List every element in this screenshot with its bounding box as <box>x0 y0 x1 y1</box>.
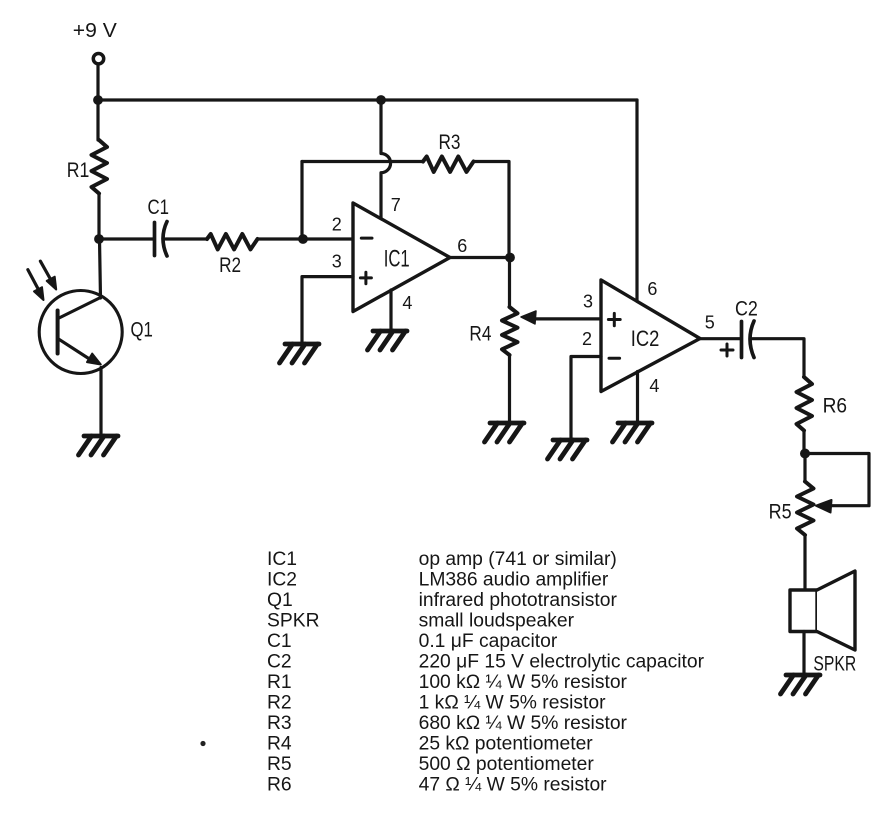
svg-text:4: 4 <box>649 376 659 396</box>
junction at rail pin7 branch <box>376 95 386 105</box>
svg-text:C2: C2 <box>735 298 758 321</box>
wire IC2 output pin5 <box>700 337 740 340</box>
+9V terminal <box>93 54 103 64</box>
wire node to C1 <box>99 237 153 240</box>
ground under Q1 <box>79 436 119 455</box>
wire R4 to ground <box>508 355 511 423</box>
resistor R3 <box>423 157 474 172</box>
op-amp IC2 <box>601 280 700 392</box>
svg-text:op amp (741 or similar): op amp (741 or similar) <box>419 549 617 570</box>
svg-text:R3: R3 <box>439 131 461 154</box>
wire R5 to speaker <box>803 535 806 590</box>
svg-text:R4: R4 <box>469 323 491 346</box>
svg-text:C1: C1 <box>148 196 170 219</box>
light arrow 1 <box>28 270 40 292</box>
wire C1 to R2 <box>166 237 208 240</box>
speaker SPKR <box>790 571 855 650</box>
op-amp IC1 <box>353 203 450 312</box>
svg-text:R1: R1 <box>67 159 90 182</box>
svg-text:500 Ω potentiometer: 500 Ω potentiometer <box>419 754 595 775</box>
svg-text:R2: R2 <box>267 692 292 713</box>
parts list <box>267 549 705 796</box>
junction C1 node <box>94 234 104 244</box>
svg-text:1 kΩ ¼ W 5% resistor: 1 kΩ ¼ W 5% resistor <box>419 692 606 713</box>
svg-text:small loudspeaker: small loudspeaker <box>419 610 575 631</box>
ground IC2 pin4 <box>613 423 653 442</box>
svg-text:5: 5 <box>705 313 715 333</box>
wire to R3 <box>302 160 423 163</box>
svg-text:IC1: IC1 <box>267 549 297 570</box>
svg-text:C2: C2 <box>267 651 292 672</box>
svg-text:R6: R6 <box>823 395 848 418</box>
resistor R2 <box>207 234 258 249</box>
wire rail to R1 <box>96 100 99 140</box>
C2 plus sign <box>721 344 733 356</box>
+9V rail wire <box>98 98 637 101</box>
light arrow 2 <box>40 261 51 281</box>
wire IC2 pin2 to ground <box>571 357 601 441</box>
R4 wiper arrow <box>534 317 601 320</box>
wire terminal to rail <box>96 65 99 100</box>
resistor R6 <box>797 377 813 431</box>
R5 wiper arrow <box>816 500 832 513</box>
svg-text:R2: R2 <box>219 254 241 277</box>
svg-text:IC2: IC2 <box>631 326 660 351</box>
potentiometer R4 <box>502 307 518 355</box>
wire output node to R4 <box>508 258 511 308</box>
svg-text:LM386 audio amplifier: LM386 audio amplifier <box>419 569 609 590</box>
wire node down to Q1 collector <box>100 239 101 298</box>
svg-text:47 Ω ¼ W 5% resistor: 47 Ω ¼ W 5% resistor <box>419 774 608 795</box>
feedback wire up from pin2 node <box>300 162 303 240</box>
junction at rail left <box>93 95 103 105</box>
svg-text:IC2: IC2 <box>267 569 297 590</box>
ground IC1 pin4 <box>368 331 408 350</box>
svg-text:0.1 μF capacitor: 0.1 μF capacitor <box>419 631 558 652</box>
svg-text:100 kΩ ¼ W 5% resistor: 100 kΩ ¼ W 5% resistor <box>419 672 628 693</box>
junction R5 node <box>800 449 810 459</box>
ground R4 <box>485 423 525 442</box>
svg-text:25 kΩ potentiometer: 25 kΩ potentiometer <box>419 733 594 754</box>
wire IC1 pin3 to ground <box>302 277 353 344</box>
svg-text:SPKR: SPKR <box>813 652 856 675</box>
junction output node <box>505 253 515 263</box>
svg-text:2: 2 <box>332 215 342 235</box>
wire IC2 pin4 to ground <box>636 372 639 424</box>
svg-text:Q1: Q1 <box>131 319 153 342</box>
wire node to IC1 pin 2 <box>303 237 353 240</box>
svg-text:R6: R6 <box>267 774 292 795</box>
svg-text:4: 4 <box>402 293 412 313</box>
svg-text:220 μF 15 V electrolytic capac: 220 μF 15 V electrolytic capacitor <box>419 651 705 672</box>
svg-text:680 kΩ ¼ W 5% resistor: 680 kΩ ¼ W 5% resistor <box>419 713 628 734</box>
ground IC1 pin3 <box>280 344 320 363</box>
wire IC1 pin 7 with hop <box>381 100 391 219</box>
wire IC1 pin4 to ground <box>389 290 392 331</box>
resistor R1 <box>92 140 108 194</box>
svg-text:2: 2 <box>582 329 592 349</box>
svg-text:IC1: IC1 <box>384 246 410 273</box>
svg-text:infrared phototransistor: infrared phototransistor <box>419 590 618 611</box>
svg-text:3: 3 <box>583 292 593 312</box>
wire R6 to junction <box>802 431 805 454</box>
svg-text:C1: C1 <box>267 631 292 652</box>
wire Q1 emitter to ground <box>99 368 102 437</box>
svg-text:SPKR: SPKR <box>267 610 320 631</box>
capacitor C1 <box>153 223 157 256</box>
wire R2 to pin2 node <box>258 237 304 240</box>
svg-text:6: 6 <box>647 279 657 299</box>
svg-text:R1: R1 <box>267 672 292 693</box>
rheostat loop wire <box>805 454 869 506</box>
ground IC2 pin2 <box>548 440 588 459</box>
phototransistor Q1 <box>39 291 153 374</box>
stray ink speck <box>200 741 205 746</box>
wire IC1 output <box>450 256 510 259</box>
potentiometer R5 <box>797 482 814 536</box>
svg-text:6: 6 <box>457 236 467 256</box>
ground speaker <box>781 675 821 694</box>
wire rail corner down to IC2 pin 6 <box>635 100 638 301</box>
wire R3 to output node <box>474 162 510 258</box>
capacitor C2 <box>740 322 744 358</box>
wire junction to R5 <box>803 454 806 482</box>
wire C2 to corner and down to R6 <box>753 339 805 377</box>
svg-text:R3: R3 <box>267 713 292 734</box>
svg-text:3: 3 <box>332 252 342 272</box>
svg-text:R4: R4 <box>267 733 292 754</box>
svg-text:+9 V: +9 V <box>73 20 118 42</box>
svg-text:R5: R5 <box>769 501 792 524</box>
junction pin2 node <box>298 234 308 244</box>
wire R1 to C1 node <box>97 194 100 240</box>
wire speaker to ground <box>802 632 805 676</box>
svg-text:7: 7 <box>391 195 401 215</box>
svg-text:R5: R5 <box>267 754 292 775</box>
svg-text:Q1: Q1 <box>267 590 293 611</box>
